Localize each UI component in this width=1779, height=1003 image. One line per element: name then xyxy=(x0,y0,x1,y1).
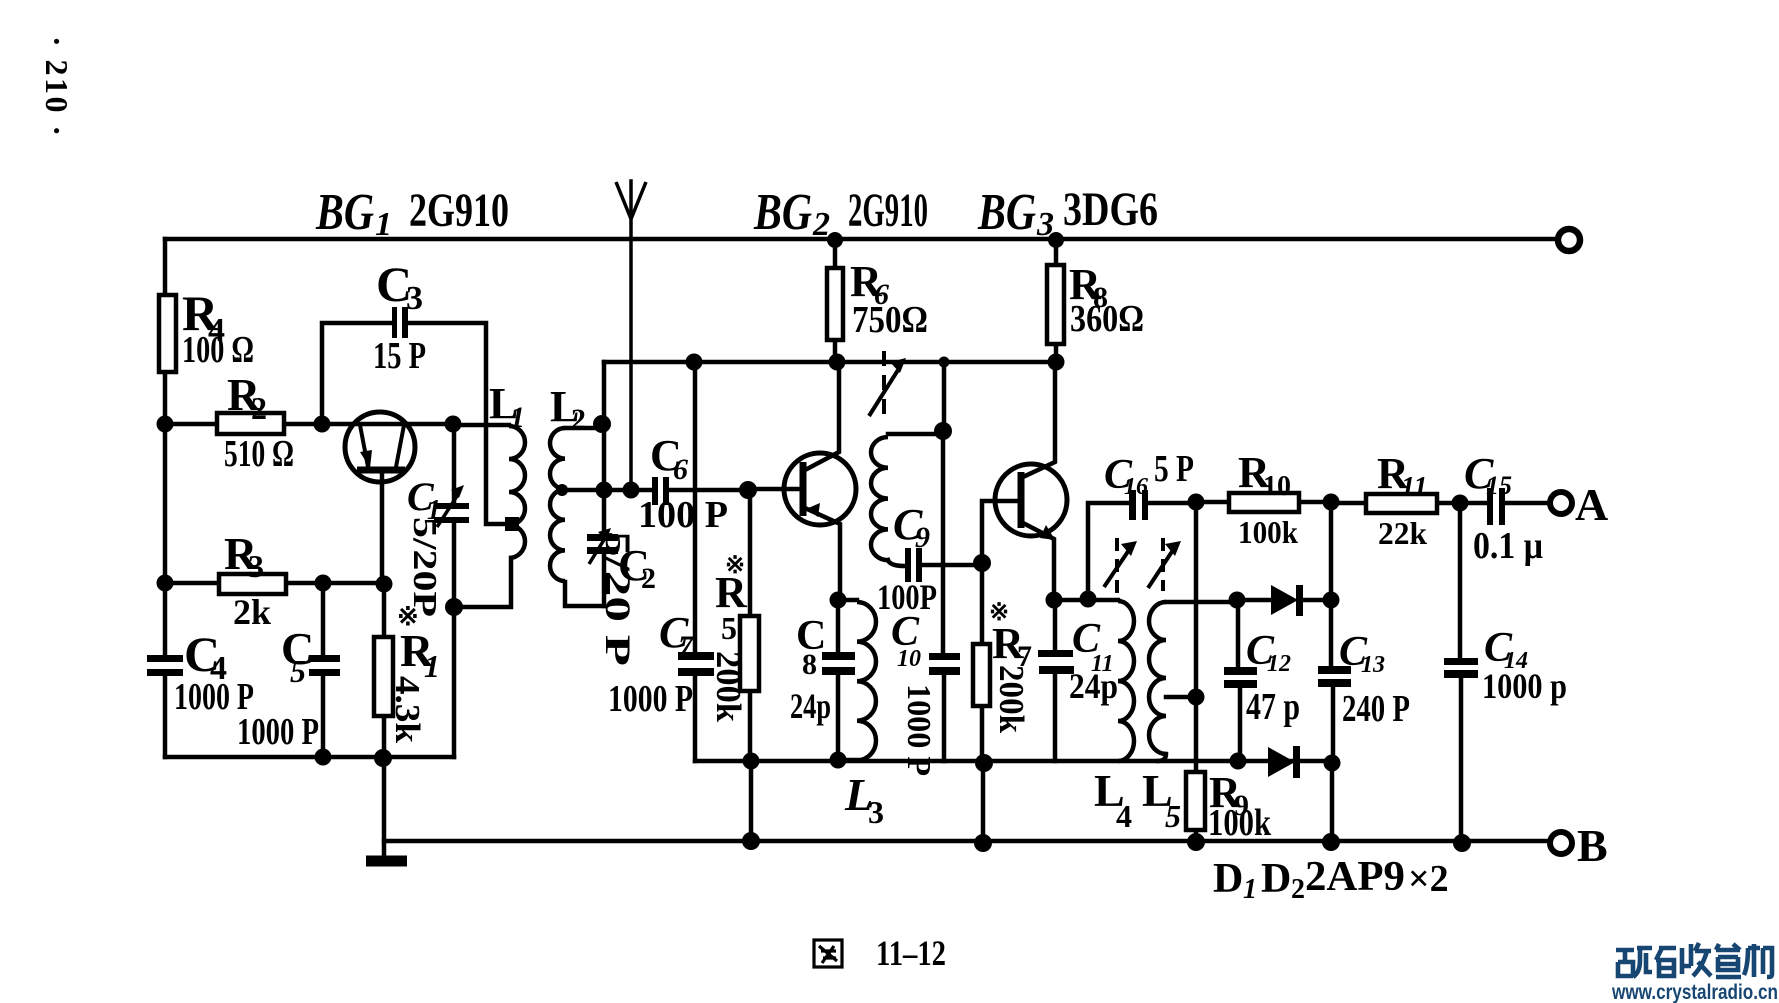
wire C15 left lead xyxy=(1460,501,1487,506)
node C8 bottom xyxy=(830,752,847,769)
node C5 top xyxy=(315,575,332,592)
wire bottom-left line xyxy=(165,755,454,760)
node BG3 emitter xyxy=(1046,592,1063,609)
wire osc coil to C9 xyxy=(888,560,905,566)
inductor L3 oscillator winding xyxy=(871,437,888,560)
node osc top xyxy=(934,422,952,440)
svg-text:47 p: 47 p xyxy=(1246,686,1300,728)
svg-text:1000 p: 1000 p xyxy=(1482,666,1567,706)
diode D1 xyxy=(1271,585,1298,615)
node bus C14 xyxy=(1453,834,1471,852)
wire R10 right lead xyxy=(1299,500,1331,505)
node bus R9 xyxy=(1187,833,1205,851)
capacitor C4 xyxy=(147,655,183,662)
node antenna C6 xyxy=(623,482,640,499)
wire C8 bottom lead xyxy=(836,675,841,760)
wire L5 tap line xyxy=(1166,695,1196,700)
wire C16 to R10 node xyxy=(1149,501,1196,506)
wire C13 bottom lead xyxy=(1331,687,1336,763)
svg-text:1: 1 xyxy=(1243,874,1257,905)
inductor L3 xyxy=(857,602,876,760)
wire C3 right to L1 tap xyxy=(409,323,506,524)
svg-text:2G910: 2G910 xyxy=(848,184,928,237)
resistor R6 xyxy=(827,268,843,340)
wire R5 top lead xyxy=(748,490,753,616)
wire ground bus xyxy=(384,839,1550,844)
svg-text:11: 11 xyxy=(1401,472,1427,503)
wire tank bottom line xyxy=(695,759,1332,764)
wire C14 top lead xyxy=(1458,503,1463,658)
wire L1 bottom lead xyxy=(454,558,511,607)
capacitor C1 variable xyxy=(434,503,469,509)
wire C8 top lead xyxy=(836,600,841,652)
node mid rail osc tee xyxy=(939,357,950,368)
inductor L4 xyxy=(1118,601,1134,761)
svg-text:· 210 ·: · 210 · xyxy=(39,36,75,136)
node R5 bottom xyxy=(743,753,760,770)
wire C2 bottom lead xyxy=(602,554,607,606)
svg-text:×2: ×2 xyxy=(1408,858,1449,900)
node R2 left xyxy=(157,416,174,433)
capacitor C10 xyxy=(929,653,960,660)
diode D2 xyxy=(1268,747,1295,777)
node D1 anode xyxy=(1229,592,1246,609)
node dots xyxy=(157,232,1472,852)
svg-text:5/20P: 5/20P xyxy=(406,517,443,617)
svg-text:1: 1 xyxy=(510,401,525,434)
svg-text:24p: 24p xyxy=(1069,666,1118,706)
capacitor C3 xyxy=(392,307,397,338)
wire L5 top line xyxy=(1166,600,1237,605)
transistor BG3 xyxy=(995,464,1067,536)
node BG1 collector xyxy=(445,416,462,433)
terminal A xyxy=(1550,492,1572,514)
svg-text:1: 1 xyxy=(375,206,392,243)
node top rail R8 xyxy=(1048,232,1064,248)
node mid drop C6 xyxy=(596,482,613,499)
node C16 riser xyxy=(1080,591,1097,608)
wire detector node line xyxy=(1054,598,1118,603)
svg-text:B: B xyxy=(1577,820,1608,871)
svg-text:5: 5 xyxy=(1165,798,1181,834)
node R8 bottom xyxy=(1048,354,1065,371)
gang arrow near BG2 xyxy=(882,351,886,421)
svg-text:1000 P: 1000 P xyxy=(608,678,693,720)
wire D1 cathode lead xyxy=(1303,598,1331,603)
wire BG1 base lead xyxy=(380,472,385,584)
resistor R11 xyxy=(1366,494,1437,513)
wire L2 top lead xyxy=(565,426,602,431)
svg-text:10: 10 xyxy=(897,646,921,672)
capacitor C14 xyxy=(1444,658,1478,665)
svg-text:BG: BG xyxy=(753,184,812,241)
node R7 bottom xyxy=(975,754,993,772)
resistor R4 xyxy=(159,295,176,372)
gang arrow near L4 xyxy=(1115,538,1119,593)
svg-text:3: 3 xyxy=(1036,206,1054,243)
wire L3 top lead xyxy=(838,598,857,603)
transistor BG1 xyxy=(345,412,415,482)
wire R1 bottom lead xyxy=(382,716,387,758)
wire R1 top lead xyxy=(382,584,387,637)
svg-text:2G910: 2G910 xyxy=(409,184,509,237)
antenna xyxy=(616,182,646,219)
wire left rail upper xyxy=(163,239,168,295)
svg-text:0.1 μ: 0.1 μ xyxy=(1473,525,1543,567)
wire C11 bottom lead xyxy=(1053,674,1058,761)
node L2 tap xyxy=(556,484,568,496)
wire R7 bottom lead xyxy=(980,706,985,763)
node BG3 base R7 xyxy=(973,554,991,572)
svg-text:4: 4 xyxy=(1116,798,1132,834)
svg-text:2k: 2k xyxy=(233,592,271,632)
svg-text:15 P: 15 P xyxy=(373,335,426,377)
wire BG2 collector lead xyxy=(805,361,839,470)
wire BG3 emitter lead xyxy=(1023,523,1054,600)
svg-text:15: 15 xyxy=(1486,471,1512,500)
node C8 top xyxy=(830,592,847,609)
svg-text:A: A xyxy=(1575,479,1608,530)
wire R11 right lead xyxy=(1437,501,1460,506)
node C12 bottom xyxy=(1230,753,1247,770)
resistor R7 xyxy=(973,644,990,706)
svg-text:D: D xyxy=(1261,856,1291,902)
inductor L5 xyxy=(1149,602,1166,754)
wire C7 bottom lead xyxy=(693,676,698,761)
wire C13 top lead xyxy=(1329,502,1334,667)
svg-text:5: 5 xyxy=(721,610,737,646)
wire R9 bottom lead xyxy=(1194,830,1199,842)
wire C13 node drop to bus xyxy=(1330,763,1335,842)
node C7 top xyxy=(686,354,703,371)
wire L2 bottom lead xyxy=(565,582,604,606)
capacitor C8 xyxy=(822,652,855,660)
wire BG3 base lead xyxy=(982,501,1019,563)
svg-text:16: 16 xyxy=(1124,474,1148,500)
capacitor C7 xyxy=(678,652,714,660)
svg-text:22k: 22k xyxy=(1378,515,1427,551)
wire C14 bottom lead xyxy=(1459,678,1464,843)
node C1 L1 junction xyxy=(445,598,463,616)
svg-text:200k: 200k xyxy=(709,651,748,723)
resistor R9 xyxy=(1186,772,1205,830)
svg-text:100k: 100k xyxy=(1208,802,1272,844)
wire D1 anode lead xyxy=(1237,598,1273,603)
wire R7 node drop to bus xyxy=(981,763,986,843)
node top rail R6 xyxy=(827,232,843,248)
node C3 left xyxy=(314,416,331,433)
wire L3 bottom lead xyxy=(838,758,857,763)
svg-text:9: 9 xyxy=(915,521,930,554)
wire mid rail xyxy=(604,360,1056,365)
svg-text:www.crystalradio.cn: www.crystalradio.cn xyxy=(1611,980,1778,1003)
wire R8 top lead xyxy=(1054,240,1059,265)
wire C5 branch upper xyxy=(321,583,326,655)
wire R2 left lead xyxy=(165,422,217,427)
wire L1 top lead xyxy=(453,423,509,428)
node bus C13 xyxy=(1322,833,1340,851)
inductor L1 xyxy=(509,426,525,558)
terminal B xyxy=(1550,832,1572,854)
svg-text:10: 10 xyxy=(1263,471,1291,502)
wire R2 to BG1 chord xyxy=(284,422,453,427)
wire C1 upper lead xyxy=(452,424,457,503)
svg-text:3: 3 xyxy=(868,794,884,830)
wire C1 lower lead xyxy=(452,523,457,757)
node R10 right xyxy=(1323,494,1340,511)
wire C10 branch vertical xyxy=(941,431,946,653)
wire osc coil top lead xyxy=(888,432,943,437)
capacitor C16 xyxy=(1129,490,1136,520)
node bus R5 xyxy=(742,832,760,850)
wire C3 left vertical xyxy=(322,323,392,424)
inductor L2 xyxy=(550,428,565,581)
wire R10 left lead xyxy=(1196,500,1229,505)
node R1 top xyxy=(376,576,393,593)
node L5 tap xyxy=(1188,689,1205,706)
resistor R10 xyxy=(1229,493,1299,512)
inductor L1 tap square xyxy=(505,517,519,531)
wire mid rail tee to osc node xyxy=(942,362,947,431)
node D1 cathode xyxy=(1323,592,1340,609)
wire R6 bottom lead xyxy=(833,340,838,361)
svg-text:3DG6: 3DG6 xyxy=(1063,183,1158,236)
node R11 right xyxy=(1452,495,1469,512)
svg-text:24p: 24p xyxy=(790,686,831,726)
wire left rail C4 to bottom xyxy=(163,676,168,757)
svg-text:100k: 100k xyxy=(1238,514,1298,550)
svg-text:5/20 P: 5/20 P xyxy=(598,531,638,666)
wire R5 bottom lead xyxy=(748,691,753,761)
node R10 left xyxy=(1188,494,1205,511)
resistor R2 xyxy=(217,413,284,434)
svg-text:12: 12 xyxy=(1267,651,1291,677)
wire ground drop xyxy=(382,758,387,857)
wire C12 top lead xyxy=(1236,600,1241,667)
wire R9 column xyxy=(1194,502,1199,772)
svg-text:2: 2 xyxy=(812,206,830,243)
wire BG3 collector lead xyxy=(1023,362,1055,477)
wire antenna mast xyxy=(629,181,633,490)
wire C7 top lead xyxy=(693,362,698,652)
watermark logo crystalradio xyxy=(1616,943,1772,977)
node R1 bottom xyxy=(374,749,392,767)
svg-text:2: 2 xyxy=(641,562,656,595)
transistor BG2 xyxy=(784,453,856,525)
wire left rail R4 to C4 xyxy=(163,372,168,655)
svg-text:1000 P: 1000 P xyxy=(900,684,937,776)
svg-text:200k: 200k xyxy=(992,665,1031,734)
wire C16 riser xyxy=(1088,503,1129,599)
svg-text:13: 13 xyxy=(1361,652,1385,678)
svg-text:750Ω: 750Ω xyxy=(852,299,928,341)
node C4 bus xyxy=(315,749,332,766)
capacitor C13 xyxy=(1318,666,1351,674)
caption figure 11-12 xyxy=(814,940,842,967)
wire R3 left lead xyxy=(165,581,219,586)
capacitor C11 xyxy=(1038,650,1073,657)
svg-text:2: 2 xyxy=(571,403,586,436)
svg-text:1000 P: 1000 P xyxy=(237,711,319,753)
ground xyxy=(366,856,407,867)
svg-text:5: 5 xyxy=(290,653,306,689)
node C6 right xyxy=(739,481,757,499)
svg-text:360Ω: 360Ω xyxy=(1070,298,1144,340)
svg-text:BG: BG xyxy=(977,184,1036,241)
capacitor C2 variable xyxy=(587,534,618,541)
capacitor C9 xyxy=(905,548,911,582)
svg-text:BG: BG xyxy=(315,184,374,241)
svg-text:11–12: 11–12 xyxy=(876,933,946,973)
resistor R8 xyxy=(1047,265,1064,344)
svg-text:5 P: 5 P xyxy=(1154,448,1194,490)
capacitor C5 xyxy=(309,655,340,662)
node R6 bottom xyxy=(829,354,846,371)
node L2 top xyxy=(593,415,611,433)
svg-text:7: 7 xyxy=(678,630,694,663)
svg-text:510 Ω: 510 Ω xyxy=(224,433,294,475)
svg-text:D: D xyxy=(1213,856,1243,902)
gang arrow near L5 xyxy=(1161,538,1165,591)
wire R5 node drop to bus xyxy=(749,761,754,841)
wire C6 line left xyxy=(561,488,652,493)
svg-text:6: 6 xyxy=(673,453,688,486)
svg-text:2: 2 xyxy=(1291,874,1305,905)
wire C11 top lead xyxy=(1053,600,1058,650)
svg-text:3: 3 xyxy=(406,280,423,317)
wire mid rail left drop to C2 xyxy=(602,362,607,534)
capacitor C15 xyxy=(1487,488,1493,525)
svg-text:8: 8 xyxy=(802,648,817,681)
wire R6 top lead xyxy=(833,240,838,268)
resistor R3 xyxy=(219,574,286,594)
svg-text:240 P: 240 P xyxy=(1342,688,1410,730)
wire BG2 emitter lead xyxy=(805,508,840,600)
wire C12 bottom lead xyxy=(1238,688,1243,761)
svg-text:2: 2 xyxy=(251,390,267,426)
wire BG2 base lead xyxy=(748,487,800,492)
wire R11 left lead xyxy=(1331,501,1366,506)
wire top supply rail xyxy=(165,237,1557,242)
resistor R5 xyxy=(740,616,759,691)
node bus R7 xyxy=(974,834,992,852)
wire L5 bottom curl xyxy=(1158,754,1166,761)
svg-text:100 P: 100 P xyxy=(638,494,728,536)
node R3 left xyxy=(157,575,174,592)
wire C5 branch lower xyxy=(321,676,326,757)
wire C6 line right xyxy=(669,488,748,493)
wire R3 right lead xyxy=(286,581,384,586)
wire C15 to terminal A xyxy=(1505,501,1550,506)
wire C10 bottom lead xyxy=(942,675,947,761)
terminal top-right xyxy=(1558,229,1580,251)
svg-text:4.3k: 4.3k xyxy=(388,676,427,744)
wire C9 output line xyxy=(922,563,982,568)
svg-text:100 Ω: 100 Ω xyxy=(182,329,254,371)
wire R7 top lead xyxy=(980,563,985,644)
capacitor C6 xyxy=(652,477,658,505)
svg-text:3: 3 xyxy=(248,548,264,584)
svg-text:2AP9: 2AP9 xyxy=(1305,854,1405,900)
wire R8 bottom lead xyxy=(1054,344,1059,362)
node D2 cathode xyxy=(1324,755,1341,772)
resistor R1 xyxy=(374,637,393,716)
capacitor C12 xyxy=(1224,667,1257,675)
